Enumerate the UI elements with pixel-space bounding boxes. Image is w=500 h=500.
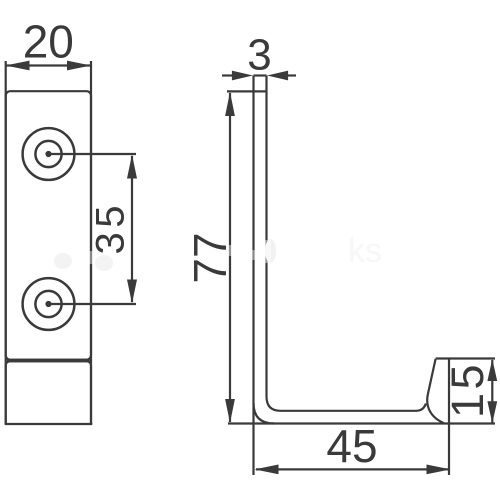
svg-text:45: 45 (326, 420, 377, 472)
svg-text:35: 35 (88, 201, 132, 255)
svg-text:15: 15 (442, 361, 493, 418)
svg-text:20: 20 (23, 16, 74, 68)
svg-text:ks: ks (348, 232, 382, 270)
svg-text:77: 77 (184, 232, 236, 283)
svg-text:3: 3 (247, 31, 271, 80)
